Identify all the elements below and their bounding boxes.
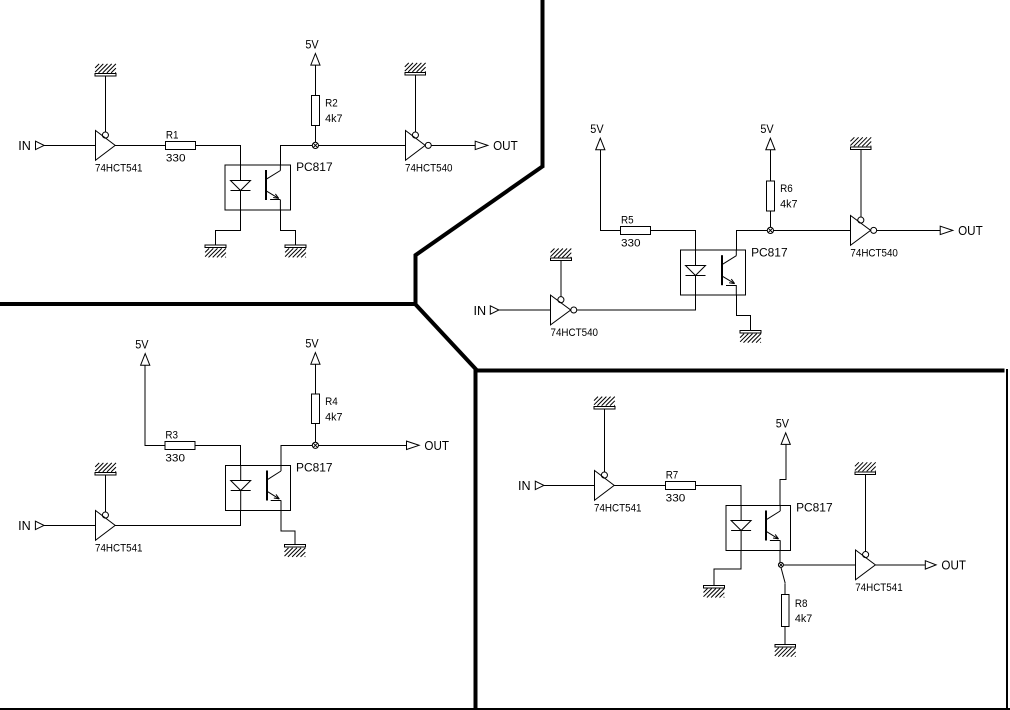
wire G8 to U5 enable xyxy=(105,475,107,512)
node A3 junction xyxy=(312,442,318,448)
wire R6 to node A2 xyxy=(769,211,771,231)
ground G3 below OC1 emitter xyxy=(285,245,306,257)
svg-text:R7: R7 xyxy=(666,470,679,482)
port OUT3 symbol xyxy=(407,441,420,449)
svg-text:74HCT541: 74HCT541 xyxy=(95,543,143,555)
svg-text:74HCT540: 74HCT540 xyxy=(850,248,898,260)
svg-text:74HCT541: 74HCT541 xyxy=(855,582,903,594)
optocoupler OC2 LED xyxy=(686,250,706,295)
svg-text:5V: 5V xyxy=(760,122,773,136)
svg-text:330: 330 xyxy=(165,453,185,465)
ground G2 below OC1 LED xyxy=(205,245,226,257)
svg-text:R5: R5 xyxy=(621,215,634,227)
port OUT2 symbol xyxy=(940,226,953,234)
bottom border xyxy=(0,708,1010,710)
svg-text:OUT: OUT xyxy=(958,223,983,238)
wire 5V to R4 xyxy=(314,364,316,394)
ground G7 above U4 xyxy=(850,137,871,149)
svg-text:R3: R3 xyxy=(165,429,178,441)
svg-text:5V: 5V xyxy=(305,37,318,51)
wire OC3 collector to OUT3 xyxy=(281,445,407,465)
wire LED2 cathode to U3 xyxy=(577,295,696,310)
buffer U7 (74HCT541) xyxy=(595,471,615,501)
ground G1 above U1 xyxy=(95,64,116,76)
5V supply PWR3 symbol xyxy=(766,138,775,150)
wire G10 to U7 enable xyxy=(603,409,605,472)
ground G4 above U2 xyxy=(405,63,426,75)
wire LED4 cathode to ground xyxy=(714,551,741,586)
svg-text:4k7: 4k7 xyxy=(795,613,812,625)
resistor R4 xyxy=(312,394,320,424)
right thin border xyxy=(1006,369,1008,709)
resistor R3 xyxy=(165,441,195,449)
node A2 junction xyxy=(767,227,773,233)
optocoupler OC2 phototransistor xyxy=(722,250,736,295)
wire G11 to U8 enable xyxy=(864,475,866,552)
svg-text:R2: R2 xyxy=(325,98,338,110)
svg-text:330: 330 xyxy=(666,493,686,505)
svg-text:74HCT541: 74HCT541 xyxy=(594,503,642,515)
svg-text:OUT: OUT xyxy=(941,558,966,573)
buffer U3 output bubble xyxy=(571,307,577,313)
wire U1 to R1 xyxy=(115,144,165,146)
wire 5V to R5 xyxy=(600,150,620,231)
buffer U5 (74HCT541) xyxy=(96,511,116,541)
buffer U4 enable bubble xyxy=(858,217,864,223)
port IN1 symbol xyxy=(36,141,45,149)
svg-text:OUT: OUT xyxy=(493,138,518,153)
wire OC1 emitter to ground xyxy=(280,210,295,245)
wire U7 to R7 xyxy=(614,484,665,486)
divider lower diagonal xyxy=(414,303,476,370)
ground G12 below OC4 LED xyxy=(704,585,725,597)
wire OC1 collector to U2 xyxy=(280,145,405,165)
wire IN2 to U3 xyxy=(499,309,551,311)
svg-text:PC817: PC817 xyxy=(751,247,788,259)
wire 5V to R3 xyxy=(145,365,165,445)
wire R4 to node A3 xyxy=(314,424,316,446)
optocoupler OC1 body xyxy=(225,165,291,210)
wire IN3 to U5 xyxy=(44,524,95,526)
resistor R1 xyxy=(166,141,196,149)
wire U2 to OUT1 xyxy=(431,144,475,146)
ground G5 above U3 xyxy=(551,249,572,261)
svg-text:4k7: 4k7 xyxy=(325,411,342,423)
wire node A4 to R8 xyxy=(781,567,785,583)
wire R2 to node A1 xyxy=(314,125,316,145)
wire LED1 cathode to ground xyxy=(216,210,241,245)
buffer U2 (74HCT540) xyxy=(406,131,426,161)
buffer U1 enable bubble xyxy=(102,132,108,138)
buffer U2 enable bubble xyxy=(412,132,418,138)
svg-text:PC817: PC817 xyxy=(296,463,333,475)
resistor R2 xyxy=(312,96,320,126)
wire OC2 collector to U4 xyxy=(736,230,850,250)
wire OC4 emitter to node A4 xyxy=(779,551,781,563)
divider upper diagonal xyxy=(415,166,544,256)
wire G7 to U4 enable xyxy=(860,150,862,218)
wire G1 to U1 enable xyxy=(105,76,107,132)
port OUT1 symbol xyxy=(475,141,488,149)
wire OC2 emitter to ground xyxy=(736,295,750,330)
resistor R8 xyxy=(781,595,789,627)
resistor R5 xyxy=(621,226,651,234)
optocoupler OC4 body xyxy=(726,506,791,551)
ground G11 above U8 xyxy=(855,462,876,474)
optocoupler OC3 body xyxy=(225,466,290,511)
wire IN1 to U1 xyxy=(44,144,95,146)
optocoupler OC4 phototransistor xyxy=(766,506,780,551)
svg-text:5V: 5V xyxy=(590,122,603,136)
port IN4 symbol xyxy=(535,481,544,489)
optocoupler OC1 LED xyxy=(231,165,251,210)
svg-text:330: 330 xyxy=(621,238,641,250)
svg-text:5V: 5V xyxy=(135,337,148,351)
wire 5V to R2 xyxy=(314,65,316,95)
resistor R7 xyxy=(665,481,695,489)
divider bottom vertical xyxy=(474,369,478,709)
svg-text:IN: IN xyxy=(18,138,31,153)
ground G8 above U5 xyxy=(95,463,116,475)
divider middle vertical xyxy=(413,254,417,305)
optocoupler OC3 LED xyxy=(231,466,251,511)
wire LED3 cathode to U5 xyxy=(115,511,241,526)
5V supply PWR1 symbol xyxy=(311,54,320,66)
ground G6 below OC2 emitter xyxy=(740,330,761,342)
buffer U1 (74HCT541) xyxy=(96,131,116,161)
wire IN4 to U7 xyxy=(544,484,594,486)
wire R8 to ground xyxy=(784,627,786,645)
port IN3 symbol xyxy=(35,521,44,529)
buffer U4 output bubble xyxy=(871,227,877,233)
svg-text:PC817: PC817 xyxy=(296,162,333,174)
optocoupler OC1 phototransistor xyxy=(266,165,280,210)
port IN2 symbol xyxy=(490,306,499,314)
ground G9 below OC3 emitter xyxy=(285,545,306,557)
buffer U4 (74HCT540) xyxy=(851,216,871,246)
wire OC4 collector to 5V xyxy=(780,444,786,505)
ground G10 above U7 xyxy=(594,397,615,409)
svg-text:OUT: OUT xyxy=(424,438,449,453)
divider right horizontal xyxy=(474,369,1005,373)
svg-text:R4: R4 xyxy=(325,396,338,408)
resistor R6 xyxy=(767,181,775,211)
wire R1 to LED1 anode xyxy=(196,145,241,165)
optocoupler OC4 LED xyxy=(731,506,751,551)
svg-text:R8: R8 xyxy=(795,598,808,610)
5V supply PWR5 symbol xyxy=(311,353,320,365)
svg-text:74HCT540: 74HCT540 xyxy=(405,163,453,175)
buffer U3 enable bubble xyxy=(558,297,564,303)
svg-text:74HCT540: 74HCT540 xyxy=(551,327,599,339)
svg-text:R1: R1 xyxy=(166,130,179,142)
ground G13 below R8 xyxy=(775,645,796,657)
wire G4 to U2 enable xyxy=(414,75,416,132)
svg-text:R6: R6 xyxy=(780,183,793,195)
buffer U3 (74HCT540) xyxy=(551,295,571,325)
5V supply PWR2 symbol xyxy=(596,138,605,150)
wire G5 to U3 enable xyxy=(560,261,562,297)
svg-text:5V: 5V xyxy=(776,417,789,431)
svg-text:330: 330 xyxy=(166,153,186,165)
wire U4 to OUT2 xyxy=(877,229,941,231)
buffer U8 enable bubble xyxy=(863,552,869,558)
divider left horizontal xyxy=(0,302,417,306)
wire R7 to LED4 anode xyxy=(695,485,741,505)
svg-text:IN: IN xyxy=(474,303,487,318)
buffer U7 enable bubble xyxy=(601,472,607,478)
buffer U2 output bubble xyxy=(425,142,431,148)
divider top vertical xyxy=(541,0,545,167)
5V supply PWR6 symbol xyxy=(781,433,790,445)
optocoupler OC2 body xyxy=(681,250,746,295)
svg-text:PC817: PC817 xyxy=(796,503,833,515)
node A1 junction xyxy=(312,142,318,148)
wire 5V to R6 xyxy=(769,150,771,181)
optocoupler OC3 phototransistor xyxy=(267,466,281,511)
node A4 junction xyxy=(778,562,783,567)
wire node A4 to U8 xyxy=(780,564,855,566)
buffer U8 (74HCT541) xyxy=(856,550,876,580)
wire R5 to LED2 anode xyxy=(651,230,696,250)
svg-text:74HCT541: 74HCT541 xyxy=(95,163,143,175)
wire R3 to LED3 anode xyxy=(195,445,240,465)
svg-text:4k7: 4k7 xyxy=(780,199,797,211)
buffer U5 enable bubble xyxy=(102,512,108,518)
wire OC3 emitter to ground xyxy=(281,511,295,545)
svg-text:IN: IN xyxy=(518,478,531,493)
wire U8 to OUT4 xyxy=(875,564,925,566)
port OUT4 symbol xyxy=(925,561,936,569)
svg-text:4k7: 4k7 xyxy=(325,113,342,125)
svg-text:IN: IN xyxy=(18,518,31,533)
svg-text:5V: 5V xyxy=(305,336,318,350)
5V supply PWR4 symbol xyxy=(141,354,150,366)
